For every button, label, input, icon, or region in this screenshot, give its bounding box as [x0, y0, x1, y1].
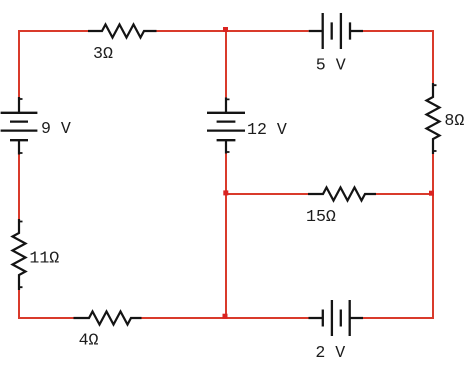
battery V 12V pin ticks: [226, 99, 230, 152]
wire bottom-right corner run: [363, 154, 433, 318]
battery V 12V plates: [207, 113, 245, 140]
resistor R 11ohm pin ticks: [19, 222, 23, 288]
battery V 9V pin ticks: [19, 99, 23, 153]
wire middle horizontal right: [376, 193, 433, 195]
battery V 9V leads: [18, 97, 20, 155]
wire top middle segment: [157, 30, 309, 32]
wire left middle segment: [18, 155, 20, 220]
svg-text:4Ω: 4Ω: [79, 330, 99, 349]
battery V 2V plates: [323, 300, 350, 336]
svg-text:2 V: 2 V: [315, 343, 345, 362]
wire middle horizontal left: [226, 193, 308, 195]
node right junction: [429, 191, 434, 196]
wire center vertical lower: [225, 154, 227, 319]
wire bottom middle segment: [142, 317, 309, 319]
battery V 9V plates: [1, 113, 38, 140]
resistor R 3ohm: [88, 25, 157, 38]
svg-text:9 V: 9 V: [41, 119, 71, 138]
battery V 12V leads: [225, 97, 227, 153]
battery V 5V plates: [323, 13, 350, 49]
wire center vertical upper: [225, 31, 227, 97]
svg-text:8Ω: 8Ω: [444, 111, 464, 130]
battery V 2V leads: [309, 317, 364, 319]
resistor R 11ohm: [13, 219, 26, 290]
svg-text:3Ω: 3Ω: [93, 44, 113, 63]
resistor R 4ohm: [74, 312, 142, 325]
resistor R 8ohm pin ticks: [433, 85, 437, 151]
svg-text:12 V: 12 V: [247, 120, 287, 139]
node top junction: [223, 27, 228, 32]
resistor R 8ohm: [427, 83, 440, 154]
svg-text:11Ω: 11Ω: [29, 248, 59, 267]
wire top-left corner run: [19, 31, 88, 97]
battery V 5V leads: [309, 30, 363, 32]
svg-text:5 V: 5 V: [316, 55, 346, 74]
node middle junction: [223, 190, 228, 195]
wire bottom-left corner run: [19, 290, 74, 318]
svg-text:15Ω: 15Ω: [306, 207, 336, 226]
resistor R 15ohm: [308, 188, 376, 201]
wire top-right corner run: [363, 31, 433, 83]
node bottom junction: [223, 314, 228, 319]
